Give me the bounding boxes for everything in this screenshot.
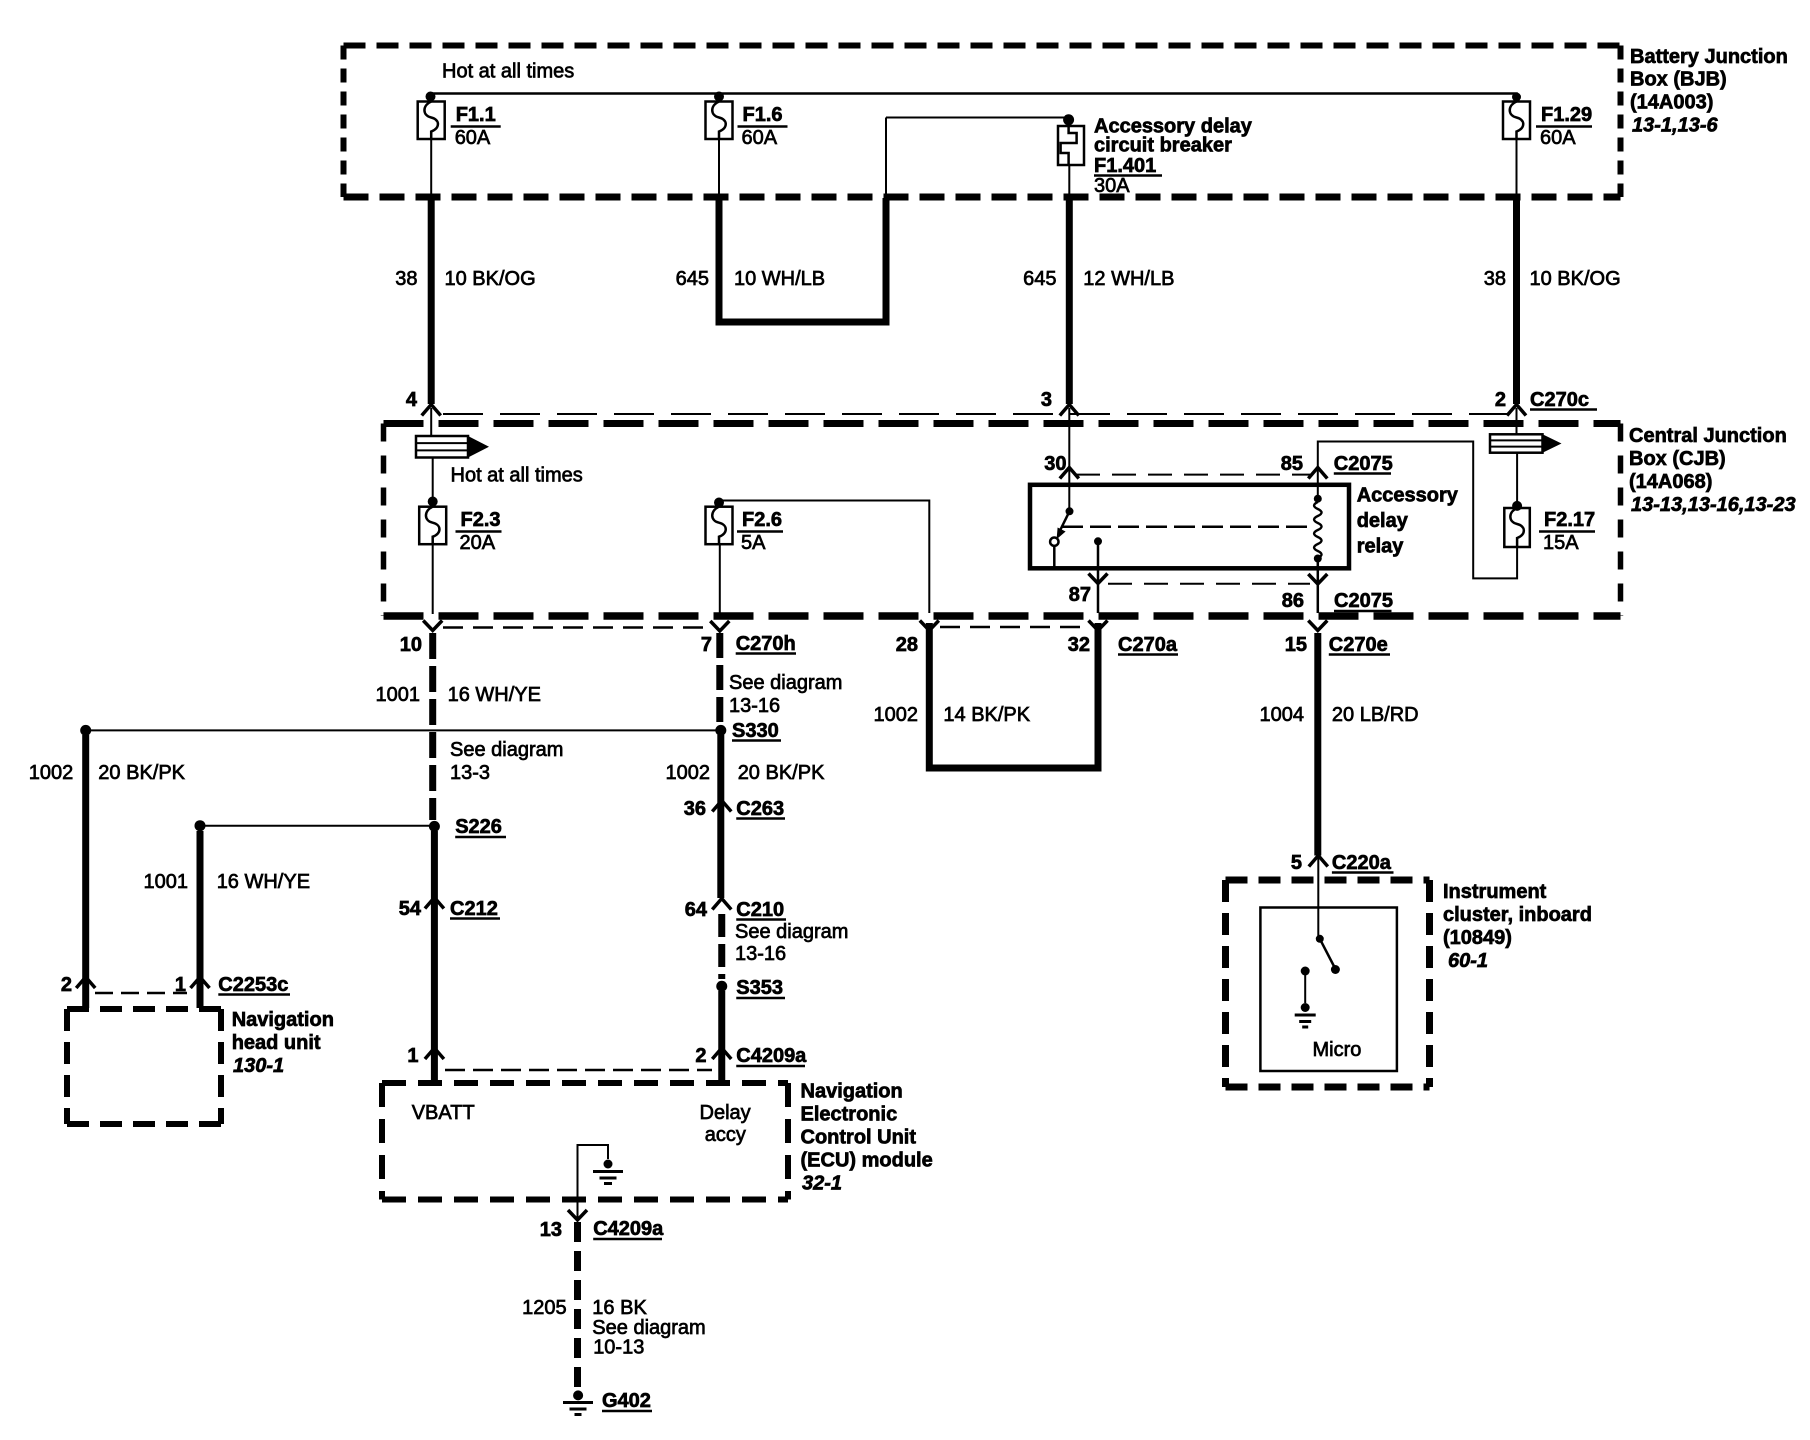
node: junction dot at F1.29 top: [1512, 93, 1521, 102]
svg-text:(10849): (10849): [1443, 927, 1512, 949]
svg-text:60A: 60A: [455, 127, 491, 149]
svg-text:10 BK/OG: 10 BK/OG: [1530, 268, 1621, 290]
label: Battery Junction Box (BJB) (14A003) 13-1,13-6: [1630, 46, 1788, 137]
svg-text:16 WH/YE: 16 WH/YE: [448, 684, 541, 706]
node: junction dot at F2.3 top: [428, 497, 438, 507]
svg-text:Battery Junction: Battery Junction: [1630, 46, 1788, 68]
ground symbol inside ECU: [604, 1160, 613, 1169]
connector C270a label: [1118, 634, 1178, 656]
svg-text:7: 7: [701, 634, 712, 656]
label: 645 10 WH/LB: [676, 268, 826, 290]
module box: Navigation head unit dashed outline: [67, 1009, 221, 1124]
svg-text:28: 28: [896, 634, 918, 656]
svg-text:relay: relay: [1357, 536, 1405, 558]
svg-text:F1.401: F1.401: [1094, 155, 1156, 177]
svg-text:2: 2: [695, 1045, 706, 1067]
svg-text:C210: C210: [736, 899, 784, 921]
pin 2 arrow into CJB: [1507, 405, 1526, 416]
label: 645 12 WH/LB: [1023, 268, 1174, 290]
svg-text:circuit breaker: circuit breaker: [1094, 135, 1232, 157]
svg-text:2: 2: [61, 974, 72, 996]
svg-text:G402: G402: [602, 1390, 651, 1412]
svg-text:14 BK/PK: 14 BK/PK: [943, 704, 1030, 726]
wire: F2.6 node to pin 28 (feed): [721, 501, 929, 614]
svg-text:13-16: 13-16: [735, 943, 786, 965]
connector C2075 label (top): [1334, 453, 1393, 475]
pin 15 arrow out of CJB: [1308, 621, 1327, 631]
svg-text:20 BK/PK: 20 BK/PK: [738, 762, 825, 784]
svg-text:head unit: head unit: [232, 1032, 321, 1054]
connector C270h label: [736, 633, 796, 655]
svg-text:(14A068): (14A068): [1629, 471, 1712, 493]
wire: circuit 1001 16 WH/YE dashed, pin 10 to S226: [429, 633, 436, 820]
svg-text:1001: 1001: [376, 684, 421, 706]
svg-text:20A: 20A: [460, 532, 496, 554]
node: splice S353: [716, 981, 727, 992]
svg-text:1: 1: [407, 1045, 418, 1067]
svg-text:C2075: C2075: [1334, 453, 1393, 475]
connector line: C2075 thin dashed above relay: [1076, 474, 1310, 476]
wire: circuit 38 10 BK/OG from F1.1 to CJB pin 4: [430, 139, 432, 404]
svg-text:60A: 60A: [1540, 127, 1576, 149]
svg-text:Instrument: Instrument: [1443, 881, 1547, 903]
svg-text:(14A003): (14A003): [1630, 92, 1713, 114]
label: 1002 20 BK/PK (left): [29, 762, 186, 784]
svg-text:87: 87: [1069, 584, 1091, 606]
svg-text:C212: C212: [450, 898, 498, 920]
svg-text:1002: 1002: [29, 762, 74, 784]
svg-text:C220a: C220a: [1332, 852, 1392, 874]
svg-text:5A: 5A: [741, 532, 766, 554]
connector C263 label: [736, 798, 785, 820]
svg-text:F1.1: F1.1: [456, 104, 496, 126]
connector C2253c label: [218, 974, 290, 996]
connector C2075 label (bottom): [1334, 590, 1393, 612]
svg-text:Micro: Micro: [1313, 1039, 1362, 1061]
svg-text:16 WH/YE: 16 WH/YE: [217, 871, 310, 893]
wire: ECU internal ground path: [578, 1145, 609, 1200]
power feed arrow (Hot at all times, CJB): [416, 436, 468, 458]
svg-text:C2075: C2075: [1334, 590, 1393, 612]
wire: splice line S226 to left branch: [200, 825, 429, 827]
node: splice S330: [715, 725, 726, 736]
wire: circuit 645 12 WH/LB from breaker F1.401 to CJB pin 3: [1068, 165, 1070, 404]
fuse F2.17 15A: [1504, 508, 1595, 554]
wire: pin 3 down to relay pin 30: [1068, 408, 1070, 511]
pin 7 arrow out of CJB: [710, 621, 729, 631]
svg-text:1001: 1001: [144, 871, 189, 893]
label: 1002 14 BK/PK: [874, 704, 1031, 726]
wire: flag B to F2.17: [1516, 453, 1518, 506]
pin 32 arrow out of CJB: [1089, 621, 1108, 631]
svg-text:(ECU) module: (ECU) module: [801, 1150, 933, 1172]
svg-text:C270a: C270a: [1118, 634, 1178, 656]
junction box: Central Junction Box (CJB) dashed outline: [384, 424, 1621, 617]
pin 1 arrow into ECU: [425, 1048, 444, 1059]
svg-text:1004: 1004: [1260, 704, 1305, 726]
module box: Instrument cluster dashed outline: [1226, 880, 1430, 1087]
wire: S330 down to C210: [717, 735, 724, 898]
svg-text:2: 2: [1495, 389, 1506, 411]
svg-text:10 BK/OG: 10 BK/OG: [445, 268, 536, 290]
svg-text:Box (CJB): Box (CJB): [1629, 448, 1726, 470]
svg-text:1002: 1002: [666, 762, 711, 784]
connector line: thin dashed head unit pin2-pin1: [95, 992, 187, 995]
pin 30 arrow: [1060, 468, 1079, 479]
power feed arrow (right, CJB): [1490, 434, 1543, 452]
svg-text:86: 86: [1282, 590, 1304, 612]
label: Instrument cluster, inboard (10849) 60-1: [1443, 881, 1592, 972]
label: Accessory delay relay: [1357, 485, 1459, 558]
svg-text:Hot at all times: Hot at all times: [442, 61, 574, 83]
svg-text:Navigation: Navigation: [232, 1009, 334, 1031]
wire: circuit 645 10 WH/LB U-loop from F1.6 to breaker feed: [719, 139, 886, 322]
svg-text:13: 13: [540, 1219, 562, 1241]
fuse F1.6 60A: [706, 102, 788, 150]
circuit breaker F1.401 30A (accessory delay): [886, 114, 1253, 197]
connector C210 label: [736, 899, 786, 921]
svg-text:10: 10: [400, 634, 422, 656]
connector line: C2075 thin dashed below relay: [1108, 583, 1310, 585]
svg-text:645: 645: [1023, 268, 1056, 290]
wire: contact to relay frame: [1053, 546, 1056, 567]
svg-text:64: 64: [685, 899, 708, 921]
text: Delay accy: [700, 1102, 751, 1146]
svg-text:32: 32: [1068, 634, 1090, 656]
text: See diagram 13-3: [450, 739, 563, 784]
wire: relay pin 87 down to CJB pin 32: [1097, 541, 1100, 613]
wire: splice line S330 to left branch: [86, 729, 716, 731]
svg-text:See diagram: See diagram: [450, 739, 563, 761]
label: 38 10 BK/OG (right): [1484, 268, 1621, 290]
pin 2 arrow into ECU: [712, 1048, 731, 1059]
wire: pin 5 into micro switch: [1317, 856, 1319, 939]
svg-text:cluster, inboard: cluster, inboard: [1443, 904, 1592, 926]
svg-text:Hot at all times: Hot at all times: [451, 465, 583, 487]
svg-text:accy: accy: [705, 1124, 746, 1146]
svg-text:C4209a: C4209a: [736, 1045, 807, 1067]
svg-text:Delay: Delay: [700, 1102, 751, 1124]
pin 87 arrow: [1089, 574, 1108, 584]
svg-text:Central Junction: Central Junction: [1629, 425, 1787, 447]
svg-text:10 WH/LB: 10 WH/LB: [734, 268, 825, 290]
node: junction dot at F2.17 top: [1512, 501, 1522, 511]
pin 10 arrow out of CJB: [423, 621, 442, 631]
wire: ECU pin 13 stub: [577, 1200, 579, 1219]
wire: pin 4 into flag and fuse F2.3: [430, 408, 432, 436]
wire: F2.6 to CJB pin 7: [719, 544, 721, 614]
wire: circuit 1004 20 LB/RD pin 15 to cluster pin 5: [1314, 633, 1321, 856]
wire: circuit 1002 20 BK/PK to head unit pin 2: [82, 735, 89, 1008]
svg-text:60-1: 60-1: [1448, 950, 1488, 972]
svg-text:See diagram: See diagram: [735, 921, 848, 943]
svg-text:C270c: C270c: [1530, 389, 1589, 411]
svg-text:C4209a: C4209a: [593, 1218, 664, 1240]
svg-text:1002: 1002: [874, 704, 919, 726]
svg-text:60A: 60A: [742, 127, 778, 149]
label: G402: [602, 1390, 652, 1412]
svg-text:10-13: 10-13: [593, 1337, 644, 1359]
svg-text:F2.17: F2.17: [1544, 509, 1595, 531]
pin 4 arrow into CJB: [422, 405, 441, 416]
svg-text:36: 36: [684, 798, 706, 820]
svg-text:5: 5: [1291, 852, 1302, 874]
relay coil: [1314, 495, 1322, 563]
fuse F2.6 5A: [706, 507, 784, 554]
wire: pin 2 into flag B and fuse F2.17: [1516, 408, 1518, 434]
svg-text:F2.6: F2.6: [742, 509, 782, 531]
svg-text:Accessory: Accessory: [1357, 485, 1459, 507]
svg-text:38: 38: [395, 268, 417, 290]
junction box: Battery Junction Box (BJB) dashed outline: [344, 46, 1621, 198]
pin 3 arrow into CJB: [1060, 405, 1079, 416]
label: 1002 20 BK/PK (mid): [666, 762, 826, 784]
svg-text:F1.29: F1.29: [1541, 104, 1592, 126]
label: S353: [736, 977, 785, 999]
node: junction dot top of 1002 20 BK/PK branch: [80, 725, 91, 736]
svg-text:15A: 15A: [1543, 532, 1579, 554]
svg-text:645: 645: [676, 268, 709, 290]
svg-text:130-1: 130-1: [233, 1055, 284, 1077]
svg-text:16 BK: 16 BK: [592, 1297, 647, 1319]
label: Navigation head unit 130-1: [232, 1009, 334, 1077]
svg-text:38: 38: [1484, 268, 1506, 290]
node: relay pin 87 junction dot: [1094, 537, 1102, 545]
label: 1205 16 BK: [522, 1297, 647, 1319]
pin 1 arrow into head unit: [191, 977, 210, 988]
svg-text:See diagram: See diagram: [729, 672, 842, 694]
svg-text:C270e: C270e: [1329, 634, 1388, 656]
fuse F1.1 60A: [418, 102, 501, 150]
svg-text:3: 3: [1041, 389, 1052, 411]
connector C270e label: [1329, 634, 1390, 656]
svg-text:20 BK/PK: 20 BK/PK: [98, 762, 185, 784]
svg-text:C263: C263: [736, 798, 784, 820]
relay box: accessory delay relay: [1030, 485, 1349, 569]
wire: coil top to fuse F2.17 loop: [1318, 442, 1517, 579]
pin 28 arrow out of CJB: [920, 621, 939, 631]
svg-text:S330: S330: [732, 720, 779, 742]
micro switch contact dot: [1301, 967, 1310, 976]
label: Central Junction Box (CJB) (14A068) 13-13,13-16,13-23: [1629, 425, 1796, 516]
svg-text:C270h: C270h: [736, 633, 796, 655]
module box: Navigation ECU dashed outline: [382, 1083, 788, 1200]
wire: circuit 1002 14 BK/PK U-loop pin 28 to pin 32: [929, 623, 1098, 768]
relay switch pivot (pin 30): [1066, 507, 1074, 515]
connector C4209a label (top): [736, 1045, 807, 1067]
svg-text:delay: delay: [1357, 510, 1409, 532]
svg-text:54: 54: [399, 898, 422, 920]
svg-text:F1.6: F1.6: [743, 104, 783, 126]
wire: BJB power bus: [431, 94, 1517, 102]
fuse F1.29 60A: [1503, 102, 1592, 150]
label: 1001 16 WH/YE (left): [144, 871, 311, 893]
svg-text:1205: 1205: [522, 1297, 567, 1319]
svg-text:13-3: 13-3: [450, 762, 490, 784]
svg-text:S226: S226: [455, 816, 502, 838]
wire: F2.3 to CJB pin 10: [432, 544, 434, 614]
pin 2 arrow into head unit: [76, 977, 95, 988]
svg-text:S353: S353: [736, 977, 783, 999]
connector C212 arrow pin 54: [425, 898, 444, 909]
svg-text:VBATT: VBATT: [412, 1102, 475, 1124]
text: See diagram 13-16 (C270h): [729, 672, 842, 717]
wire: flag to F2.3: [432, 458, 434, 502]
wire: contact to ground (micro): [1304, 971, 1306, 1003]
micro box inside cluster: [1260, 908, 1397, 1072]
connector C4209a label (pin 13): [593, 1218, 664, 1240]
relay switch contact (open circle): [1050, 538, 1058, 546]
connector C220a label: [1332, 852, 1394, 874]
label: 1001 16 WH/YE (main): [376, 684, 541, 706]
connector C212 label: [450, 898, 500, 920]
relay actuator dashed link: [1062, 525, 1314, 528]
svg-text:12 WH/LB: 12 WH/LB: [1083, 268, 1174, 290]
label: 38 10 BK/OG (left): [395, 268, 535, 290]
text: See diagram 10-13: [592, 1317, 705, 1359]
connector C263 arrow pin 36: [712, 801, 731, 812]
node: junction dot top of 1001 16 WH/YE branch: [195, 820, 206, 831]
pin 85 arrow: [1308, 468, 1327, 479]
wire: S353 down to ECU pin 2: [718, 991, 725, 1082]
node: junction dot at F1.1 top: [426, 92, 436, 102]
svg-text:30A: 30A: [1094, 175, 1130, 197]
pin 13 arrow out of ECU: [568, 1210, 587, 1220]
svg-text:15: 15: [1285, 634, 1307, 656]
text: See diagram 13-16 (C210): [735, 921, 848, 965]
node: junction dot at F2.6 top: [714, 498, 724, 508]
wire: circuit 38 10 BK/OG from F1.29 to CJB pin 2: [1516, 139, 1518, 404]
label: S330: [732, 720, 781, 742]
micro switch blade end dot: [1331, 965, 1340, 974]
connector C210 arrow pin 64: [712, 899, 731, 910]
node: splice S226: [429, 821, 440, 832]
wire: dashed C210 to S353: [718, 914, 725, 979]
svg-text:13-13,13-16,13-23: 13-13,13-16,13-23: [1631, 494, 1796, 516]
ground symbol inside micro: [1301, 1003, 1310, 1012]
pin 86 arrow: [1308, 574, 1327, 584]
connector line: thin dashed pin10-pin7: [443, 626, 710, 629]
connector line: C270 thin dashed at CJB top: [443, 413, 1508, 415]
micro switch pivot: [1316, 935, 1324, 943]
svg-text:13-1,13-6: 13-1,13-6: [1632, 115, 1718, 137]
wire: circuit 1001 16 WH/YE to head unit pin 1: [197, 831, 204, 1008]
connector line: thin dashed ECU pin1-pin2: [445, 1069, 712, 1072]
pin 5 arrow into cluster: [1309, 856, 1328, 867]
svg-text:Box (BJB): Box (BJB): [1630, 69, 1727, 91]
connector line: thin dashed pin28-pin32: [940, 626, 1087, 629]
svg-text:32-1: 32-1: [802, 1173, 842, 1195]
svg-text:13-16: 13-16: [729, 695, 780, 717]
node: junction dot at F1.6 top: [714, 92, 724, 102]
relay switch blade: [1057, 511, 1070, 539]
fuse F2.3 20A: [419, 507, 501, 554]
wire: coil bottom to CJB pin 15: [1317, 559, 1320, 614]
svg-text:Navigation: Navigation: [801, 1081, 903, 1103]
svg-text:4: 4: [406, 389, 418, 411]
svg-text:30: 30: [1044, 453, 1066, 475]
svg-text:C2253c: C2253c: [218, 974, 288, 996]
svg-text:Control Unit: Control Unit: [801, 1127, 917, 1149]
wire: S226 down to ECU pin 1: [431, 831, 438, 1082]
svg-text:85: 85: [1281, 453, 1303, 475]
svg-text:20 LB/RD: 20 LB/RD: [1332, 704, 1419, 726]
svg-text:Electronic: Electronic: [801, 1104, 898, 1126]
connector C270c label: [1530, 389, 1597, 411]
wire: circuit 1205 16 BK dashed to G402: [574, 1222, 581, 1389]
wire: circuit 1002 20 BK/PK dashed, pin 7 to S330: [716, 633, 723, 725]
label: 1004 20 LB/RD: [1260, 704, 1419, 726]
label: Navigation Electronic Control Unit (ECU) module 32-1: [801, 1081, 933, 1195]
ground G402: [563, 1390, 593, 1414]
micro switch blade: [1320, 939, 1335, 967]
svg-text:F2.3: F2.3: [461, 509, 501, 531]
label: S226: [455, 816, 506, 838]
